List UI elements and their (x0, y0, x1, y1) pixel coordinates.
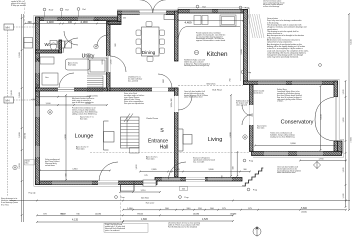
dimension line anti trap dim (119, 191, 161, 193)
wall top dining (118, 11, 179, 15)
dimension line left dim line a (21, 14, 23, 222)
note apex lounge (76, 146, 89, 151)
gully prop gully cons top (241, 71, 244, 74)
utility annotation bubble (66, 59, 90, 70)
dining table (142, 27, 160, 56)
svg-text:S: S (160, 128, 164, 134)
door arc cons french top leaf (315, 97, 334, 120)
dimension line lounge interior dim (65, 94, 67, 181)
svg-text:4,409: 4,409 (185, 21, 192, 25)
svg-text:Glazed doors: Glazed doors (253, 91, 263, 94)
svg-text:2007: 2007 (163, 79, 165, 83)
svg-text:300: 300 (222, 175, 224, 178)
opening hall door (152, 88, 168, 92)
svg-text:2,340: 2,340 (19, 52, 21, 58)
window cons top win1 (258, 81, 286, 84)
svg-text:1,210: 1,210 (140, 190, 146, 192)
svg-text:1,640: 1,640 (19, 92, 21, 98)
dining chairs (136, 22, 165, 62)
svg-text:x Gulf: x Gulf (31, 99, 36, 101)
door arc cons double door top (242, 105, 253, 116)
svg-text:Prop Up: Prop Up (29, 192, 36, 195)
svg-text:4,525: 4,525 (202, 218, 209, 221)
kitchen sink (194, 16, 208, 25)
door arc utility top door (64, 31, 78, 45)
wc toilet (50, 41, 57, 51)
gully roof gully 3 (77, 8, 80, 11)
svg-text:Rain water: Rain water (146, 202, 155, 205)
dimension line bottom lounge dim (10, 200, 350, 202)
svg-text:Ref: Ref (82, 9, 86, 11)
symbol H left margin (13, 165, 17, 169)
svg-text:Wall Units: Wall Units (207, 82, 216, 85)
svg-text:Roof slabs: Roof slabs (68, 65, 76, 67)
wall dining top step (118, 11, 122, 22)
note dg doors note (253, 91, 265, 95)
note mech extract note (72, 97, 94, 104)
svg-text:160BM: 160BM (230, 213, 237, 215)
svg-text:Cloaks Room: Cloaks Room (146, 118, 158, 120)
gully kitchen ref gully (196, 5, 199, 8)
svg-text:1000M: 1000M (95, 213, 101, 215)
svg-text:1,100: 1,100 (93, 20, 99, 22)
manhole MH2 (4, 97, 14, 103)
staircase entrance hall (121, 114, 140, 154)
kitchen fridge (220, 15, 236, 26)
svg-text:Utility: Utility (82, 54, 95, 60)
svg-text:960M: 960M (60, 213, 65, 215)
svg-text:1,300: 1,300 (111, 59, 113, 65)
door arc hall-living door swing (158, 74, 172, 88)
opening french door dining (140, 11, 167, 15)
svg-text:Roof: Roof (49, 10, 54, 12)
window left win3 (36, 146, 39, 157)
svg-text:4,135: 4,135 (72, 219, 79, 222)
svg-text:finished ground level with gri: finished ground level with grill cap. (184, 64, 210, 67)
gully gully right margin (319, 64, 322, 67)
svg-text:7,590: 7,590 (351, 137, 353, 143)
wall dining-hall wall (110, 88, 178, 91)
dimension line cons interior dim (320, 85, 322, 151)
svg-text:H: H (14, 166, 16, 170)
note span living (257, 125, 267, 130)
dimension line utility dim (35, 104, 108, 106)
stepped external stair house-to-conservatory corner (242, 168, 263, 186)
svg-text:floor slabs: floor slabs (80, 118, 87, 120)
wall conservatory top (244, 81, 338, 85)
fireplace living side (179, 129, 193, 151)
svg-text:Wc: Wc (44, 42, 50, 47)
gully prop gully step (243, 159, 246, 162)
wall left wall (36, 17, 40, 185)
svg-text:1,800: 1,800 (141, 218, 148, 221)
dimension line utility sub dim (35, 96, 91, 98)
door arc utility-hall door (110, 56, 126, 72)
svg-text:reading no less than 8000mmsq: reading no less than 8000mmsq (270, 135, 295, 138)
svg-text:max. rise width: max. rise width (193, 160, 204, 163)
note stairs note (124, 92, 144, 105)
utility shelving / linen (87, 76, 103, 91)
dashed line porch vertical (120, 191, 122, 222)
svg-text:Plain slabs: Plain slabs (146, 159, 155, 161)
svg-text:H: H (195, 51, 197, 55)
svg-text:of doors: of doors (277, 100, 283, 103)
note top-right note (263, 0, 285, 8)
wall top utility (36, 17, 121, 21)
opening utility door (58, 88, 74, 92)
wc cupboard (40, 57, 54, 64)
svg-text:1,930: 1,930 (318, 158, 324, 160)
wall wc bottom (36, 50, 59, 53)
drain line MH1 to house (14, 26, 36, 28)
svg-text:(5226): (5226) (301, 212, 307, 214)
svg-text:1,860: 1,860 (127, 208, 133, 210)
wall hall-living wall (175, 88, 179, 177)
svg-text:1,200: 1,200 (343, 117, 345, 123)
dimension line cons small dim (299, 160, 347, 162)
svg-text:3,800: 3,800 (290, 143, 296, 145)
diamond symbol (313, 161, 320, 169)
note cons oven note (277, 166, 302, 175)
door arc patio door (169, 162, 187, 180)
svg-text:Kitchen: Kitchen (206, 51, 228, 58)
svg-text:1600M: 1600M (193, 213, 200, 215)
boiler cupboard (42, 73, 58, 85)
dimension line top dim row (24, 23, 121, 25)
external steps hatch right of kitchen (248, 14, 264, 38)
svg-text:1,400: 1,400 (47, 20, 54, 24)
dimension line porch dim row (139, 171, 251, 173)
dimension line step dim (236, 151, 238, 177)
dimension line bottom row C (122, 220, 234, 222)
svg-text:150/64: 150/64 (25, 132, 27, 139)
svg-text:5,440: 5,440 (351, 39, 353, 45)
note safety glass note (277, 88, 302, 103)
note apex vent utility (68, 62, 78, 67)
dimension line kitchen dim (177, 20, 244, 22)
svg-text:2,300: 2,300 (81, 20, 88, 24)
svg-text:H: H (244, 135, 246, 139)
svg-text:Hall: Hall (160, 145, 169, 151)
dimension line cons inner dim (254, 145, 336, 147)
note kitchen vent note (196, 32, 225, 43)
window cons top win2 (292, 81, 322, 84)
window dining top win (122, 11, 139, 14)
anti trap window box (143, 180, 156, 186)
svg-text:type of diff these anti electr: type of diff these anti electric (72, 101, 94, 104)
svg-text:Lounge: Lounge (75, 134, 94, 140)
fireplace lounge side (104, 121, 115, 150)
note purge vent note (72, 107, 97, 116)
svg-text:Bulk Head: Bulk Head (212, 90, 221, 92)
opening utility-hall door (106, 56, 110, 72)
opening patio door living (186, 177, 205, 181)
dimension line right dim main (345, 80, 347, 208)
dimension line right dim outer (348, 13, 350, 211)
note top-left note (11, 0, 26, 7)
door arc wc door (63, 38, 78, 53)
opening cons double door (249, 105, 253, 125)
note external doors note (168, 222, 200, 229)
gully prop gully bottom right (247, 188, 250, 191)
svg-text:MH: MH (6, 99, 10, 103)
svg-text:1,460: 1,460 (19, 132, 21, 138)
svg-text:H: H (49, 110, 51, 114)
svg-text:99034: 99034 (137, 213, 144, 215)
opening front door (98, 181, 118, 185)
svg-text:035: 035 (123, 18, 126, 20)
wall wc right stub (59, 40, 62, 53)
svg-text:floor slabs: floor slabs (257, 127, 264, 129)
window living bottom win2 (208, 178, 232, 181)
note sideboards note (236, 100, 249, 107)
svg-text:2,300: 2,300 (102, 59, 104, 65)
svg-text:2,865: 2,865 (151, 169, 157, 171)
svg-text:steel, wall and: steel, wall and (236, 103, 247, 106)
wall utility-hall wall (107, 22, 111, 92)
svg-text:1,400: 1,400 (136, 164, 138, 170)
wall living bottom (155, 178, 242, 182)
window left win1 (36, 62, 39, 73)
svg-text:R.Wwp per washed: R.Wwp per washed (11, 4, 26, 7)
svg-text:100: 100 (68, 21, 73, 24)
door arc cons double door bottom (242, 114, 253, 125)
opening cons french door (334, 97, 338, 141)
svg-text:approval if measurable in cont: approval if measurable in contact mode (196, 39, 225, 42)
door arc cons french bottom leaf (315, 120, 334, 142)
svg-text:Anti Slab: Anti Slab (141, 197, 149, 200)
svg-text:some may not be specifically m: some may not be specifically mentioned. (267, 56, 299, 59)
north arrow (253, 227, 261, 237)
svg-text:Conservatory: Conservatory (281, 120, 314, 126)
dimension line bottom row A (122, 209, 347, 211)
svg-text:Part M 2000, Access for the Di: Part M 2000, Access for the Disabled (168, 226, 197, 229)
note meter box (25, 160, 35, 165)
window kitchen top win1 (190, 10, 212, 13)
svg-text:MH: MH (6, 26, 10, 30)
door arc hall top door (97, 35, 108, 46)
window left win2 (36, 106, 39, 117)
door arc living door to hall (178, 96, 192, 110)
roof leader lines (45, 9, 198, 17)
window utility top win1 (44, 17, 57, 20)
svg-text:5,800: 5,800 (301, 207, 308, 210)
note storm note (1, 197, 18, 206)
svg-text:joints c/w undersuit: joints c/w undersuit (104, 229, 120, 232)
svg-text:Dining: Dining (142, 50, 156, 56)
svg-text:Plain slabs: Plain slabs (76, 149, 85, 151)
wall conservatory right lower (334, 141, 338, 153)
wall kitchen right (244, 10, 248, 85)
svg-text:1,180: 1,180 (343, 193, 345, 199)
kitchen tall units line (240, 13, 242, 81)
door arc front door (99, 162, 118, 181)
svg-text:300: 300 (233, 166, 235, 169)
dimension line lounge bottom dim (39, 170, 111, 172)
window living bottom win1 (162, 178, 180, 181)
wall conservatory right upper (334, 81, 338, 97)
gully prop gully top (239, 6, 242, 9)
drain run vertical (7, 30, 9, 97)
svg-text:300: 300 (66, 173, 68, 176)
wall conservatory step out (338, 141, 343, 153)
window lounge bottom win (52, 181, 92, 184)
svg-text:3,840: 3,840 (208, 169, 214, 171)
note underfloor note (128, 76, 143, 83)
dimension line left dim line b (22, 14, 24, 222)
note general notes (267, 17, 309, 59)
svg-text:5,440: 5,440 (321, 114, 323, 120)
wall utility-lounge wall (36, 88, 108, 91)
svg-text:1,810: 1,810 (72, 168, 78, 170)
svg-text:1,219 x 900: 1,219 x 900 (171, 99, 173, 108)
note bottom box note (104, 223, 148, 232)
svg-text:3,440: 3,440 (11, 90, 13, 96)
manhole MH1 (4, 24, 14, 30)
note trickle note (270, 132, 295, 139)
porch side walls (121, 181, 135, 192)
window utility top win2 (78, 17, 94, 20)
note kitchen oven note (184, 59, 210, 68)
svg-text:Ref: Ref (65, 10, 69, 12)
dimension line living interior dim (230, 94, 232, 177)
gully roof gully 2 (60, 8, 63, 11)
wall lounge bottom (36, 181, 158, 185)
svg-text:Box: Box (26, 163, 29, 165)
window cons bottom win2 (297, 152, 323, 155)
symbol H utility (94, 44, 98, 48)
drain line MH2 to house (14, 99, 36, 101)
svg-text:above finished floor level: above finished floor level (184, 97, 203, 99)
svg-text:1,490: 1,490 (19, 163, 21, 169)
svg-text:adding curtains than 8000mmsq: adding curtains than 8000mmsq (72, 112, 97, 115)
note staircase eng note (193, 157, 215, 164)
svg-text:3,480: 3,480 (241, 49, 243, 55)
eaves outline offset (34, 8, 344, 187)
note span lounge (80, 116, 94, 121)
wall living-cons wall (250, 85, 254, 152)
note velux note (45, 158, 60, 167)
svg-text:Ref: Ref (202, 7, 206, 9)
svg-text:Living: Living (208, 137, 223, 143)
wall conservatory bottom (252, 152, 342, 156)
svg-text:arched doors: arched doors (45, 164, 55, 167)
note switch heights note (184, 90, 209, 99)
svg-text:Stee prior on reproduction: Stee prior on reproduction (124, 102, 144, 105)
symbol H kitchen (194, 50, 198, 54)
opening hall-living door (174, 96, 178, 112)
door arc french door right (153, 0, 166, 13)
wall lobby step wall (108, 22, 121, 25)
wall units dashed (178, 85, 243, 87)
305 box (180, 187, 188, 191)
svg-text:Gas: Gas (45, 77, 49, 79)
svg-text:box - perimid: box - perimid (128, 79, 138, 82)
svg-text:If for The): If for The) (1, 203, 9, 206)
svg-text:above finished floor level: above finished floor level (277, 172, 296, 174)
window cons bottom win1 (264, 152, 288, 155)
svg-text:1,030: 1,030 (343, 89, 345, 95)
dashed line left of plan (24, 0, 26, 24)
wc basin (24, 38, 33, 49)
ceiling break dashed hall (90, 152, 250, 154)
door arc french door left (140, 0, 153, 13)
dimension line bottom row B (36, 214, 234, 216)
kitchen worktop (178, 27, 240, 45)
dimension line bottom 4135 line (36, 221, 124, 223)
gully prop gully patio (179, 196, 182, 199)
gully prop gully porch (115, 196, 118, 199)
svg-text:1,930: 1,930 (343, 167, 345, 173)
utility washer (58, 41, 72, 48)
symbol H living (243, 135, 247, 139)
wall junction X marks (36, 58, 39, 89)
gully roof gully 1 (43, 8, 46, 11)
svg-text:300: 300 (28, 21, 33, 24)
utility sink unit (88, 58, 107, 74)
note apex hall (146, 156, 158, 161)
wall dining-kitchen wall (175, 11, 179, 61)
wall top kitchen (178, 10, 248, 14)
svg-text:H: H (95, 45, 97, 49)
symbol H lounge (48, 110, 52, 114)
window kitchen top win2 (218, 10, 240, 13)
door arc utility door (59, 73, 74, 88)
svg-text:1,000: 1,000 (45, 103, 51, 105)
dining tall unit (164, 15, 175, 20)
